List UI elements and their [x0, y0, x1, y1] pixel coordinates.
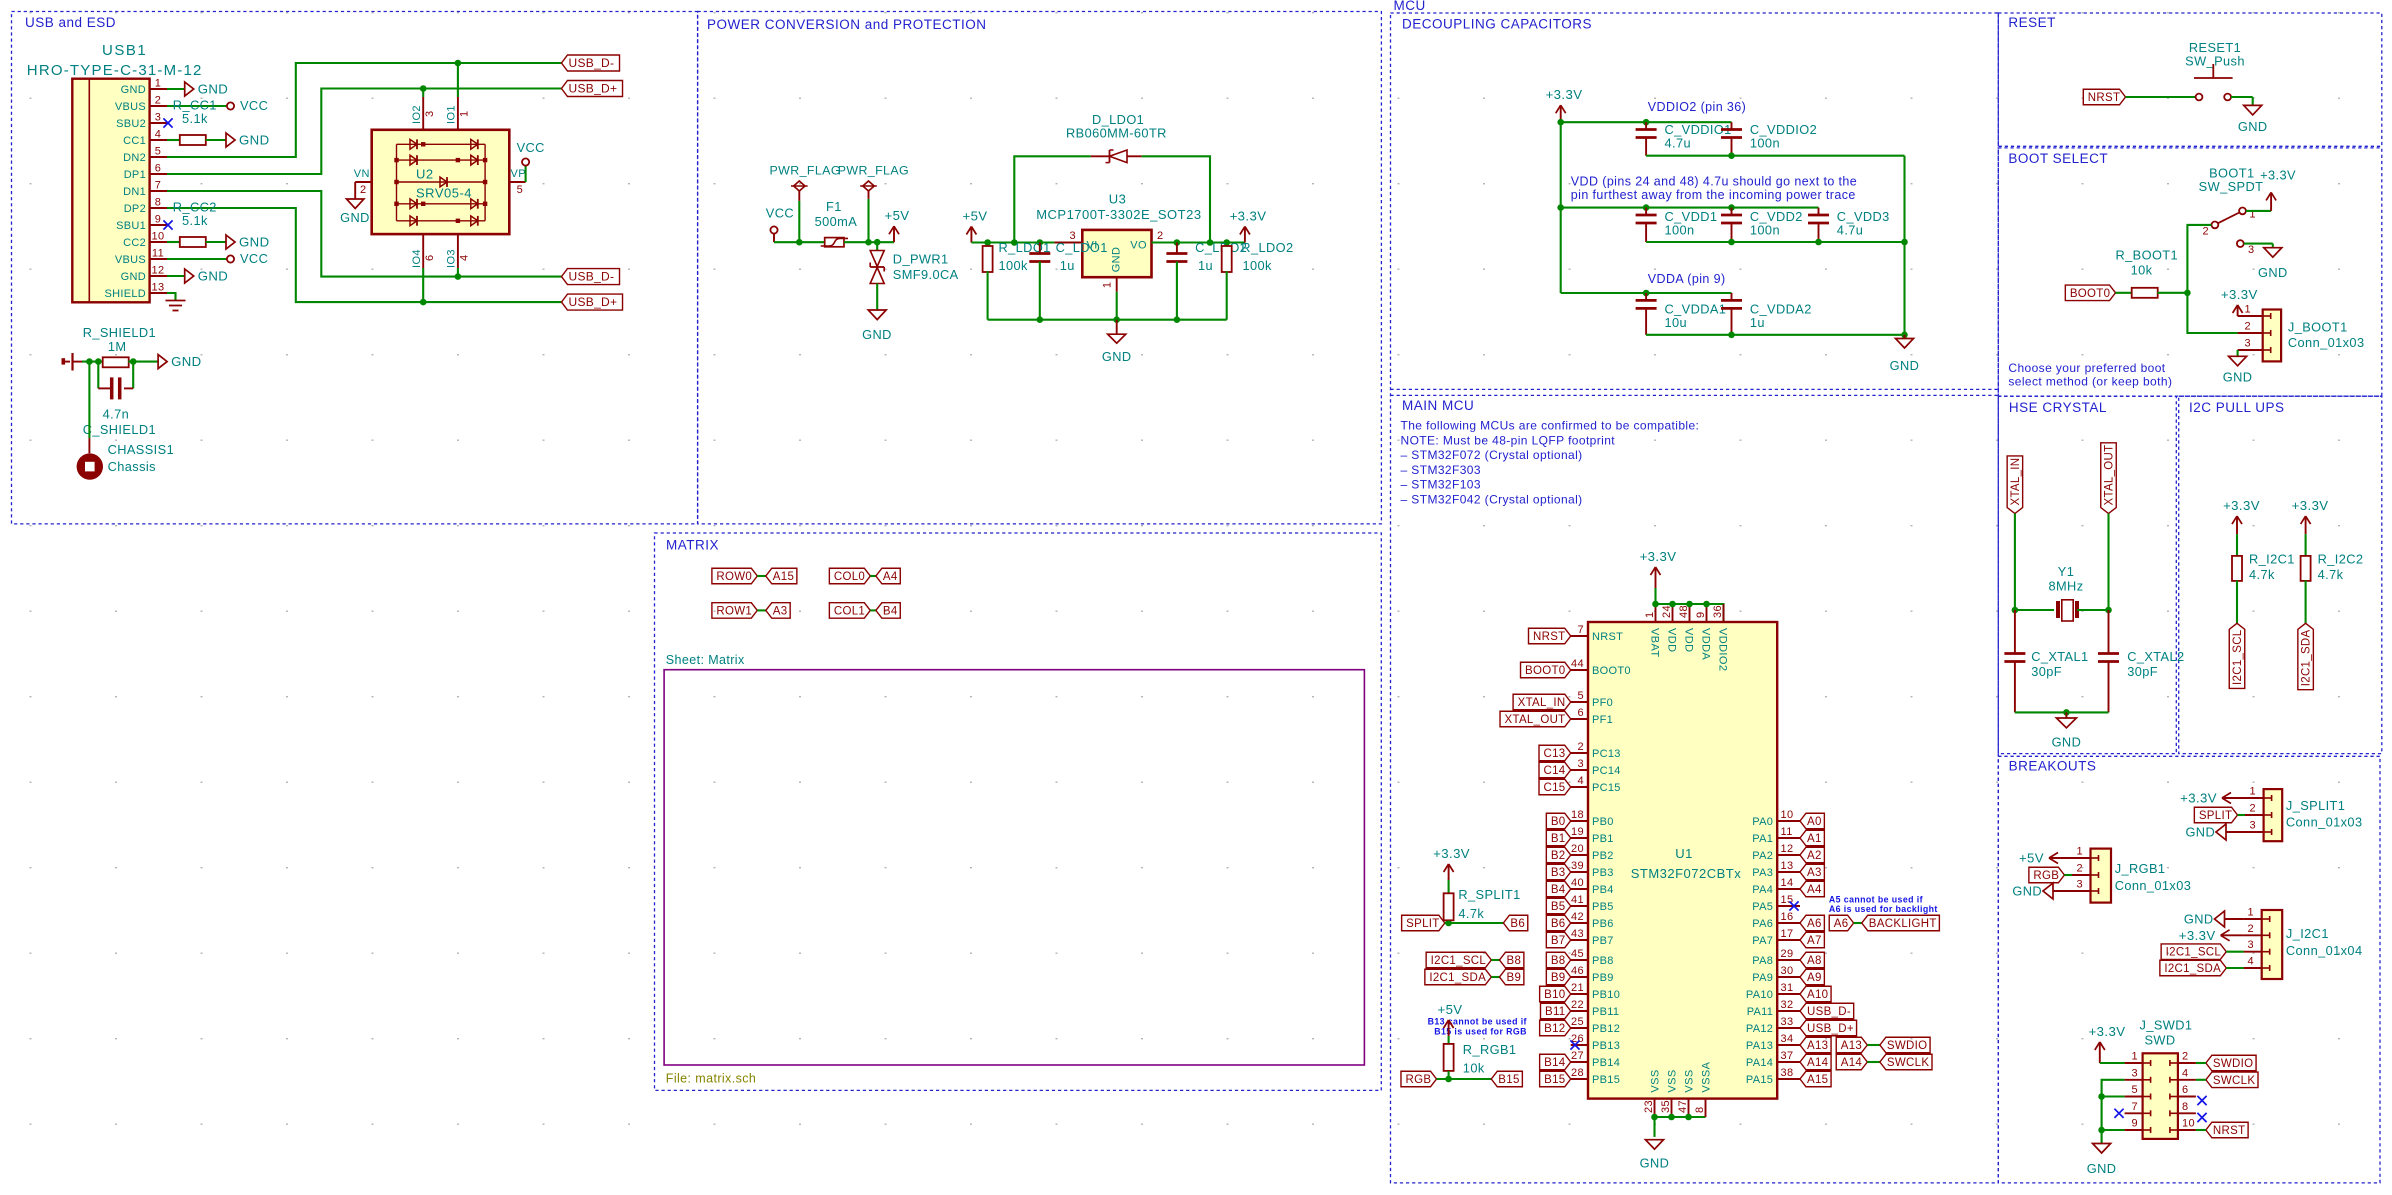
no-connect J_SWD1 pin6: [2197, 1096, 2206, 1105]
U1 pin 47 VSS: [1688, 1099, 1690, 1117]
svg-text:10: 10: [1781, 809, 1794, 821]
wire pin2 VBUS to VCC: [167, 105, 227, 107]
svg-text:BOOT0: BOOT0: [1525, 665, 1565, 677]
USB1 pin 1 GND: [150, 88, 167, 90]
power +3.3V (J_SPLIT1): [2222, 797, 2245, 799]
J_BOOT1 pin 3: [2238, 349, 2263, 351]
svg-text:B8: B8: [1551, 955, 1566, 967]
junction U1 pin23: [1651, 1114, 1658, 1121]
svg-text:4: 4: [1577, 775, 1584, 787]
global label B0 (U1): [1546, 813, 1570, 829]
svg-text:SWCLK: SWCLK: [1887, 1057, 1929, 1069]
svg-text:A3: A3: [773, 605, 788, 617]
global label A6 (chain): [1829, 915, 1853, 931]
USB1 pin 4 CC1: [150, 139, 167, 141]
section box I2C PULL UPS: [2179, 396, 2382, 753]
svg-text:VCC: VCC: [240, 98, 268, 113]
svg-text:VCC: VCC: [517, 140, 545, 155]
global label B9 (chain): [1500, 969, 1524, 985]
svg-text:4.7k: 4.7k: [2318, 567, 2344, 582]
capacitor C_LDO1 1u: [1039, 243, 1041, 254]
svg-text:4: 4: [2182, 1067, 2189, 1079]
svg-text:2: 2: [1157, 230, 1164, 242]
junction DN1/IO3: [455, 273, 462, 280]
svg-text:3: 3: [2249, 820, 2256, 832]
svg-text:C_XTAL1: C_XTAL1: [2031, 649, 2088, 664]
svg-text:4.7u: 4.7u: [1665, 136, 1692, 151]
svg-text:PF1: PF1: [1592, 714, 1613, 726]
svg-text:PB0: PB0: [1592, 816, 1614, 828]
power GND (pin12): [185, 269, 194, 283]
U3 pin 3 VI: [1054, 242, 1082, 244]
svg-text:NRST: NRST: [2213, 1125, 2246, 1137]
svg-text:PB2: PB2: [1592, 850, 1614, 862]
svg-text:SPLIT: SPLIT: [1406, 918, 1439, 930]
power GND (J_RGB1): [2043, 883, 2053, 899]
svg-text:A9: A9: [1807, 972, 1822, 984]
svg-text:C_XTAL2: C_XTAL2: [2127, 649, 2184, 664]
U1 pin 10 PA0: [1777, 820, 1800, 822]
U1 pin 7 NRST: [1571, 635, 1588, 637]
svg-text:22: 22: [1571, 999, 1584, 1011]
power GND (U1): [1653, 1117, 1655, 1137]
U1 pin 16 PA6: [1777, 922, 1800, 924]
global label B15 (U1): [1540, 1071, 1571, 1087]
global label SWCLK (J_SWD1): [2206, 1072, 2258, 1088]
global label A8 (U1 PA8): [1800, 952, 1824, 968]
svg-text:39: 39: [1571, 860, 1584, 872]
U1 pin 23 VSS: [1654, 1099, 1656, 1117]
J_SWD1 pin 6: [2178, 1096, 2196, 1098]
USB1 pin 13 SHIELD: [150, 292, 167, 294]
svg-text:2: 2: [2247, 923, 2254, 935]
U3 pin 1 GND: [1116, 277, 1118, 292]
capacitor C_XTAL1 30pF: [2014, 610, 2016, 654]
connector USB1 HRO-TYPE-C-31-M-12: [72, 79, 149, 303]
U1 pin 27 PB14: [1571, 1061, 1588, 1063]
svg-text:USB_D+: USB_D+: [569, 82, 618, 96]
svg-text:BREAKOUTS: BREAKOUTS: [2009, 759, 2097, 774]
svg-text:4.7k: 4.7k: [1458, 906, 1484, 921]
J_SWD1 pin 7: [2125, 1112, 2143, 1114]
svg-text:R_I2C1: R_I2C1: [2249, 551, 2295, 566]
global label SWCLK (chain): [1880, 1054, 1932, 1070]
svg-text:Chassis: Chassis: [108, 459, 156, 474]
USB1 pin 12 GND: [150, 275, 167, 277]
global label B14 (U1): [1540, 1054, 1571, 1070]
power flag PWR_FLAG1: [798, 201, 800, 242]
svg-text:10k: 10k: [2131, 263, 2153, 278]
svg-text:1: 1: [2076, 846, 2083, 858]
global label COL1: [829, 603, 870, 619]
USB1 pin 6 DP1: [150, 173, 167, 175]
global label A14 (U1 PA14): [1800, 1054, 1831, 1070]
divider DECOUPLING/MAIN MCU: [1391, 388, 1999, 390]
svg-text:A4: A4: [883, 571, 898, 583]
svg-text:I2C1_SDA: I2C1_SDA: [1429, 972, 1486, 984]
svg-text:500mA: 500mA: [815, 214, 858, 229]
svg-text:4.7u: 4.7u: [1837, 223, 1864, 238]
svg-text:19: 19: [1571, 826, 1584, 838]
svg-text:ROW1: ROW1: [716, 605, 752, 617]
svg-text:CC2: CC2: [123, 237, 146, 249]
svg-text:PB8: PB8: [1592, 955, 1614, 967]
svg-text:COL1: COL1: [834, 605, 865, 617]
svg-text:GND: GND: [2087, 1161, 2117, 1176]
junction GND rail bottom: [1901, 332, 1908, 339]
global label B8 (U1): [1546, 952, 1570, 968]
wire pin11 VBUS to VCC: [167, 258, 227, 260]
svg-text:PB7: PB7: [1592, 935, 1614, 947]
svg-text:+3.3V: +3.3V: [2292, 498, 2329, 513]
junction C_VDDIO1 top: [1643, 119, 1650, 126]
J_RGB1 pin 2: [2072, 874, 2091, 876]
junction D_PWR1: [874, 239, 881, 246]
global label A6 (U1 PA6): [1800, 915, 1824, 931]
svg-text:USB_D-: USB_D-: [569, 56, 615, 70]
svg-text:DP2: DP2: [124, 203, 146, 215]
svg-text:1: 1: [459, 110, 471, 117]
wire RGB to B15: [1437, 1078, 1492, 1080]
svg-text:+3.3V: +3.3V: [2180, 791, 2217, 806]
svg-text:35: 35: [1660, 1100, 1672, 1113]
svg-text:4: 4: [459, 254, 471, 261]
J_SWD1 pin 10: [2178, 1129, 2196, 1131]
svg-text:VDD (pins 24 and 48) 4.7u shou: VDD (pins 24 and 48) 4.7u should go next…: [1571, 175, 1857, 189]
svg-text:30: 30: [1781, 965, 1794, 977]
global label A2 (U1 PA2): [1800, 847, 1824, 863]
svg-text:+3.3V: +3.3V: [2179, 928, 2216, 943]
U1 pin 45 PB8: [1571, 959, 1588, 961]
svg-text:PA12: PA12: [1746, 1023, 1773, 1035]
svg-text:+3.3V: +3.3V: [1640, 549, 1677, 564]
svg-text:U3: U3: [1109, 191, 1127, 206]
J_I2C1 pin 1: [2244, 918, 2262, 920]
capacitor C_VDD1 100n: [1645, 208, 1647, 215]
svg-text:COL0: COL0: [834, 571, 865, 583]
svg-text:GND: GND: [1890, 358, 1920, 373]
svg-text:PC14: PC14: [1592, 765, 1621, 777]
svg-text:PA5: PA5: [1752, 901, 1773, 913]
power GND (shield): [158, 355, 167, 369]
svg-text:23: 23: [1643, 1100, 1655, 1113]
svg-text:Conn_01x03: Conn_01x03: [2286, 815, 2363, 830]
global label B2 (U1): [1546, 847, 1570, 863]
svg-text:3: 3: [155, 112, 162, 124]
U2 internal rails: [396, 144, 398, 221]
global label BOOT0 (boot select): [2065, 285, 2115, 301]
section box BREAKOUTS: [1998, 756, 2380, 1183]
power GND (boot switch): [2272, 244, 2274, 248]
svg-text:2: 2: [2076, 863, 2083, 875]
svg-text:GND: GND: [2012, 884, 2042, 899]
svg-text:SW_SPDT: SW_SPDT: [2199, 179, 2264, 194]
power +3.3V (U1): [1655, 567, 1657, 588]
junction D_LDO1 right: [1207, 239, 1214, 246]
svg-text:VDD: VDD: [1683, 628, 1695, 652]
svg-text:18: 18: [1571, 809, 1584, 821]
global label B6 (chain): [1503, 915, 1527, 931]
junction C_VDD3 bottom: [1815, 239, 1822, 246]
svg-text:45: 45: [1571, 948, 1584, 960]
junction vddio rail: [1557, 119, 1564, 126]
junction rail C_LDO2: [1174, 316, 1181, 323]
global label USB_D+ top: [562, 81, 623, 97]
power +3.3V (J_BOOT1): [2237, 305, 2239, 316]
wire switch to GND: [2231, 96, 2253, 98]
resistor R_RGB1 10k: [1448, 1036, 1450, 1044]
svg-text:6: 6: [1577, 707, 1584, 719]
J_SWD1 pin 4: [2178, 1079, 2196, 1081]
capacitor C_VDD3 4.7u: [1818, 208, 1820, 215]
svg-text:40: 40: [1571, 877, 1584, 889]
global label B12 (U1): [1540, 1020, 1571, 1036]
svg-text:B7: B7: [1551, 935, 1566, 947]
power +5V (LDO input): [970, 227, 972, 243]
svg-text:GND: GND: [2185, 825, 2215, 840]
svg-text:GND: GND: [340, 210, 370, 225]
svg-text:7: 7: [2131, 1101, 2138, 1113]
svg-text:5: 5: [1577, 690, 1584, 702]
power GND (reset): [2252, 97, 2254, 105]
section box BOOT SELECT: [1998, 148, 2382, 396]
global label B1 (U1): [1546, 830, 1570, 846]
global label BACKLIGHT: [1862, 915, 1940, 931]
U1 pin 44 BOOT0: [1571, 669, 1588, 671]
wire VDD bottom rail: [1646, 241, 1904, 243]
svg-text:POWER CONVERSION and PROTECTIO: POWER CONVERSION and PROTECTION: [707, 17, 987, 32]
svg-text:30pF: 30pF: [2031, 664, 2062, 679]
J_I2C1 pin 2: [2244, 934, 2262, 936]
global label A4 (matrix): [876, 568, 900, 584]
svg-text:+5V: +5V: [1437, 1002, 1462, 1017]
svg-text:2: 2: [2249, 803, 2256, 815]
svg-text:B6: B6: [1510, 918, 1525, 930]
J_BOOT1 pin 1: [2238, 315, 2263, 317]
global label USB_D+ (U1 PA12): [1800, 1020, 1857, 1036]
svg-text:SPLIT: SPLIT: [2199, 810, 2232, 822]
svg-text:+3.3V: +3.3V: [1230, 209, 1267, 224]
svg-text:3: 3: [2131, 1067, 2138, 1079]
svg-text:J_SWD1: J_SWD1: [2140, 1018, 2193, 1033]
svg-text:PA9: PA9: [1752, 972, 1773, 984]
U1 pin 25 PB12: [1571, 1027, 1588, 1029]
U1 pin 34 PA13: [1777, 1044, 1800, 1046]
U1 pin 11 PA1: [1777, 837, 1800, 839]
global label I2C1_SCL (U1): [1426, 952, 1491, 968]
svg-text:VDDIO2 (pin 36): VDDIO2 (pin 36): [1648, 100, 1746, 114]
USB1 pin 9 SBU1: [150, 224, 167, 226]
svg-text:VDD: VDD: [1666, 628, 1678, 652]
svg-text:IO2: IO2: [411, 105, 423, 124]
svg-text:3: 3: [424, 110, 436, 117]
wire pin1 to GND: [167, 88, 185, 90]
svg-text:2: 2: [2202, 226, 2209, 238]
svg-text:16: 16: [1781, 911, 1794, 923]
svg-text:1: 1: [155, 78, 162, 90]
U1 pin 46 PB9: [1571, 976, 1588, 978]
power GND (J_SPLIT1): [2216, 824, 2226, 840]
svg-text:I2C1_SDA: I2C1_SDA: [2301, 629, 2313, 686]
junction shield 1: [86, 358, 93, 365]
svg-text:BOOT0: BOOT0: [1592, 665, 1631, 677]
global label B4 (matrix): [876, 603, 900, 619]
global label USB_D+ bottom: [562, 294, 623, 310]
wire I2C1_SCL to B8: [1491, 959, 1499, 961]
svg-text:2: 2: [360, 184, 367, 196]
power GND (CC2): [226, 235, 235, 249]
global label A14 (chain): [1836, 1054, 1867, 1070]
svg-text:DP1: DP1: [124, 169, 146, 181]
svg-text:VBAT: VBAT: [1649, 628, 1661, 658]
svg-text:8: 8: [2182, 1101, 2189, 1113]
U2 pin 6 IO4: [422, 234, 424, 268]
svg-text:3: 3: [2247, 939, 2254, 951]
svg-text:Conn_01x04: Conn_01x04: [2286, 943, 2363, 958]
wire XTAL_IN down: [2014, 514, 2016, 611]
svg-text:A2: A2: [1807, 850, 1822, 862]
wire XTAL_OUT down: [2107, 514, 2109, 611]
svg-text:3: 3: [1577, 758, 1584, 770]
section box USB and ESD: [12, 12, 698, 524]
svg-text:VBUS: VBUS: [115, 254, 146, 266]
USB1 pin 7 DN1: [150, 190, 167, 192]
svg-text:PA3: PA3: [1752, 867, 1773, 879]
global label A0 (U1 PA0): [1800, 813, 1824, 829]
global label A13 (U1 PA13): [1800, 1037, 1831, 1053]
svg-text:GND: GND: [2052, 734, 2082, 749]
svg-text:PB13: PB13: [1592, 1040, 1620, 1052]
svg-text:3: 3: [2244, 338, 2251, 350]
svg-text:2: 2: [2182, 1051, 2189, 1063]
svg-text:28: 28: [1571, 1067, 1584, 1079]
wire VDDA bottom rail: [1646, 334, 1904, 336]
power +3.3V (J_I2C1): [2221, 934, 2244, 936]
svg-text:20: 20: [1571, 843, 1584, 855]
wire COL0-A4: [870, 575, 876, 577]
svg-text:PA7: PA7: [1752, 935, 1773, 947]
svg-text:PB3: PB3: [1592, 867, 1614, 879]
svg-text:SWD: SWD: [2144, 1033, 2175, 1048]
svg-text:B6: B6: [1551, 918, 1566, 930]
junction U1 pin1: [1652, 601, 1659, 608]
svg-text:PA11: PA11: [1747, 1006, 1773, 1018]
resistor R_CC1 5.1k: [167, 139, 180, 141]
J_SPLIT1 pin 3: [2245, 831, 2264, 833]
connector J_BOOT1 Conn_01x03: [2263, 310, 2281, 362]
svg-text:41: 41: [1571, 894, 1584, 906]
svg-text:B11: B11: [1545, 1006, 1566, 1018]
svg-text:21: 21: [1571, 982, 1584, 994]
svg-text:MCP1700T-3302E_SOT23: MCP1700T-3302E_SOT23: [1036, 207, 1201, 222]
global label B3 (U1): [1546, 864, 1570, 880]
svg-text:PF0: PF0: [1592, 697, 1613, 709]
svg-text:43: 43: [1571, 928, 1584, 940]
connector J_SPLIT1 Conn_01x03: [2264, 789, 2283, 841]
svg-text:VDDA (pin 9): VDDA (pin 9): [1648, 272, 1726, 286]
svg-text:VN: VN: [354, 168, 370, 180]
svg-text:VDDA: VDDA: [1700, 628, 1712, 660]
svg-text:100n: 100n: [1750, 136, 1780, 151]
wire VDDA top rail: [1561, 292, 1732, 294]
svg-text:PB14: PB14: [1592, 1057, 1620, 1069]
U1 pin 28 PB15: [1571, 1078, 1588, 1080]
svg-text:PB12: PB12: [1592, 1023, 1620, 1035]
svg-text:PA8: PA8: [1752, 955, 1773, 967]
svg-text:I2C1_SDA: I2C1_SDA: [2164, 963, 2221, 975]
svg-text:GND: GND: [2184, 912, 2214, 927]
junction swd gnd pin5: [2098, 1093, 2105, 1100]
svg-text:10k: 10k: [1463, 1061, 1485, 1076]
svg-text:RB060MM-60TR: RB060MM-60TR: [1066, 126, 1167, 141]
svg-text:A1: A1: [1807, 833, 1822, 845]
svg-text:USB and ESD: USB and ESD: [25, 15, 116, 30]
svg-text:1u: 1u: [1198, 258, 1213, 273]
svg-text:– STM32F042 (Crystal optional): – STM32F042 (Crystal optional): [1401, 493, 1583, 507]
svg-text:9: 9: [1695, 611, 1707, 618]
wire to chassis: [88, 362, 90, 439]
svg-text:File: matrix.sch: File: matrix.sch: [666, 1072, 756, 1086]
global label B10 (U1): [1540, 986, 1571, 1002]
svg-text:GND: GND: [862, 327, 892, 342]
svg-text:+5V: +5V: [2019, 851, 2044, 866]
U1 pin 17 PA7: [1777, 939, 1800, 941]
junction rail U3 GND: [1113, 316, 1120, 323]
global label ROW0: [712, 568, 757, 584]
svg-text:STM32F072CBTx: STM32F072CBTx: [1631, 866, 1742, 881]
svg-text:8: 8: [1694, 1106, 1706, 1113]
junction R_RGB1: [1445, 1076, 1452, 1083]
svg-text:5: 5: [2131, 1084, 2138, 1096]
resistor R_CC2 5.1k: [167, 241, 180, 243]
svg-text:SHIELD: SHIELD: [104, 288, 146, 300]
svg-text:PB6: PB6: [1592, 918, 1614, 930]
USB1 pin 11 VBUS: [150, 258, 167, 260]
svg-text:VP: VP: [511, 168, 526, 180]
svg-text:USB1: USB1: [102, 42, 147, 59]
svg-text:PB4: PB4: [1592, 884, 1614, 896]
svg-text:5.1k: 5.1k: [182, 213, 208, 228]
svg-text:B2: B2: [1551, 850, 1566, 862]
J_SWD1 pin 9: [2125, 1129, 2143, 1131]
section box HSE CRYSTAL: [1998, 396, 2176, 753]
svg-text:30pF: 30pF: [2127, 664, 2158, 679]
svg-text:I2C1_SCL: I2C1_SCL: [1431, 955, 1487, 967]
svg-text:5: 5: [517, 184, 524, 196]
power +3.3V (R_I2C1): [2236, 516, 2238, 534]
USB1 pin 5 DN2: [150, 156, 167, 158]
wire +3.3V vertical rail: [1560, 122, 1562, 293]
global label A15 (U1 PA15): [1800, 1071, 1831, 1087]
svg-text:1: 1: [1102, 282, 1114, 289]
svg-text:B15: B15: [1544, 1074, 1565, 1086]
svg-text:GND: GND: [198, 269, 229, 284]
global label SWDIO (J_SWD1): [2206, 1055, 2256, 1071]
svg-text:25: 25: [1571, 1016, 1584, 1028]
svg-text:1u: 1u: [1060, 258, 1075, 273]
wire +5V to U3 VI: [971, 241, 1054, 243]
svg-text:GND: GND: [171, 354, 202, 369]
junction C_LDO1: [1037, 239, 1044, 246]
global label RGB (J_RGB1): [2029, 867, 2065, 883]
global label USB_D- (U1 PA11): [1800, 1003, 1854, 1019]
global label SPLIT: [1402, 915, 1445, 931]
svg-text:7: 7: [155, 180, 162, 192]
resistor R_LDO1 100k: [987, 243, 989, 247]
svg-text:7: 7: [1577, 624, 1584, 636]
svg-text:R_LDO2: R_LDO2: [1241, 240, 1293, 255]
svg-text:A6: A6: [1834, 918, 1849, 930]
